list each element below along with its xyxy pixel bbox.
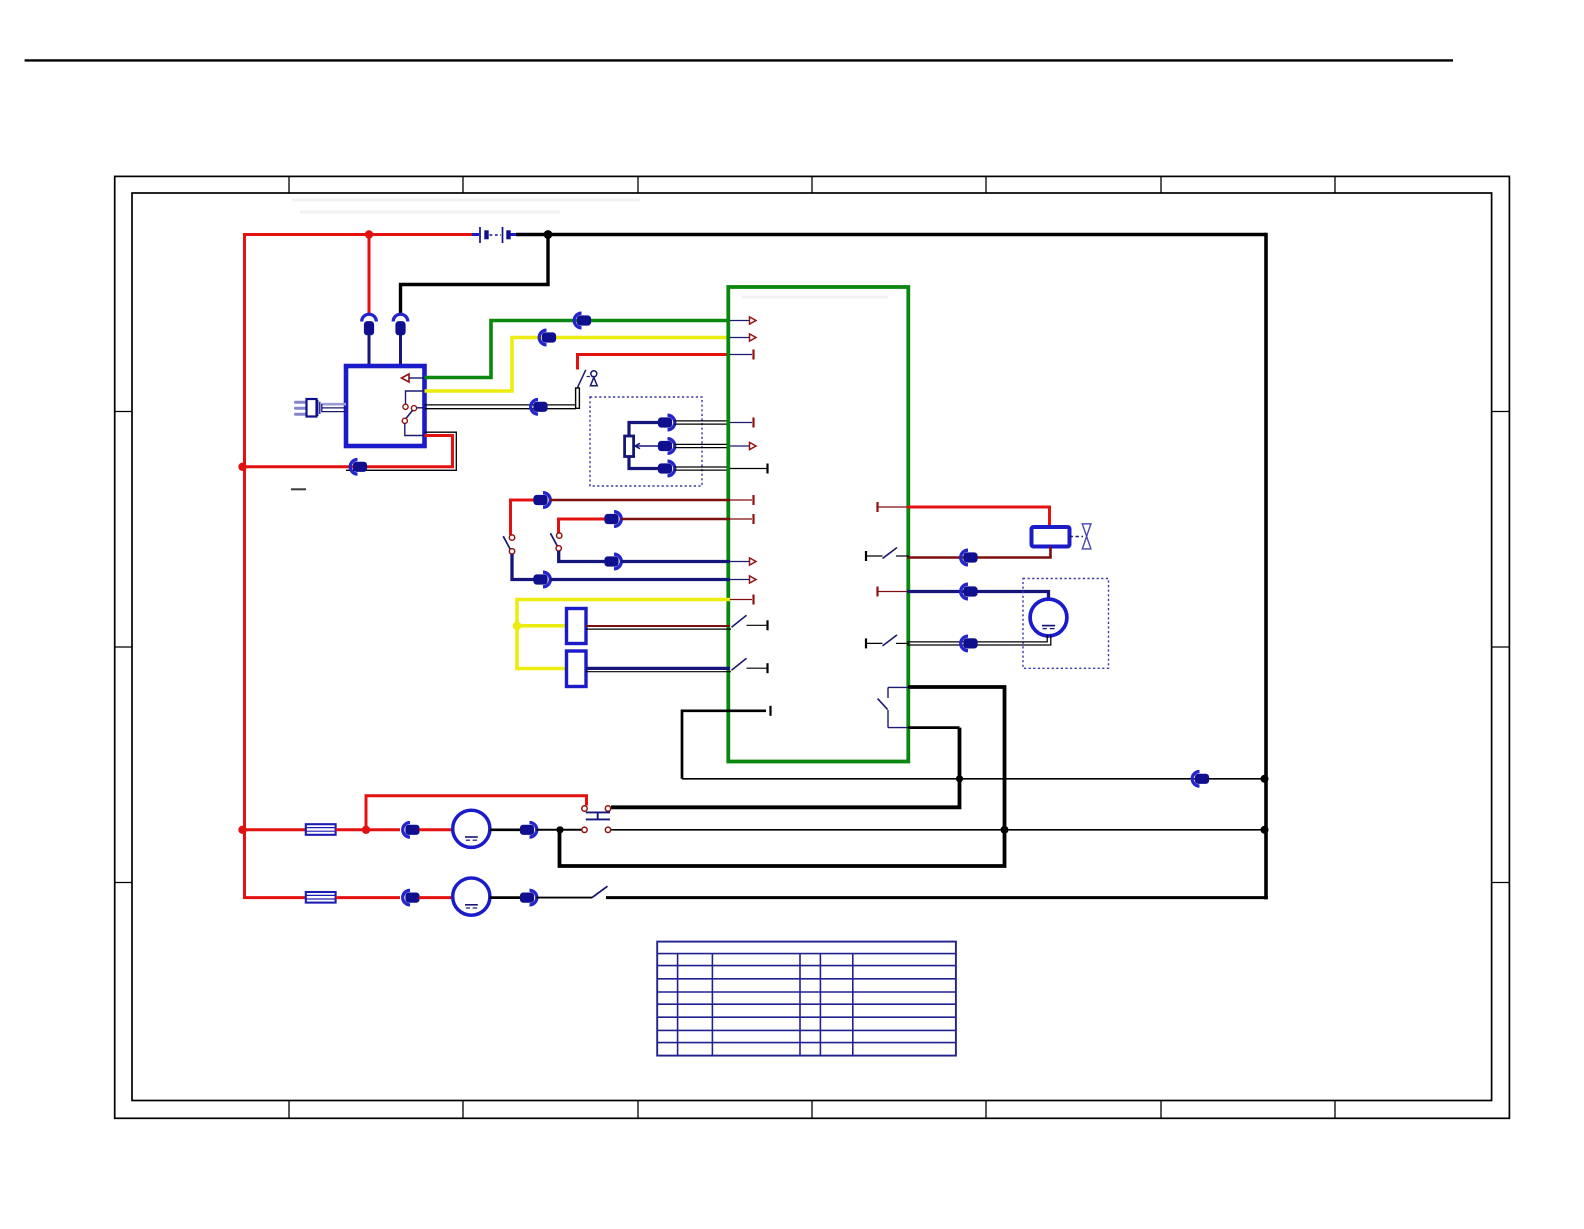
- faint watermark text row: [292, 199, 640, 202]
- lamp L2 mark: [465, 904, 478, 906]
- ECU pin stub rowD: [730, 579, 750, 581]
- ECU pin stub rowR3: [878, 591, 910, 593]
- connector C3 green (arc): [574, 313, 581, 328]
- drawing frame inner border: [132, 193, 1492, 1101]
- node junction bus830/T1 run: [1001, 826, 1009, 834]
- faint watermark inside ECU: [742, 296, 888, 299]
- ECU rowR2 switch lever: [883, 548, 898, 559]
- kill switch S1 operator body: [590, 377, 597, 385]
- valve V1 top: [1082, 524, 1091, 537]
- switch S3 contact bottom: [556, 546, 561, 551]
- connector C13 rowC (pin): [605, 557, 618, 566]
- wire red ECU row3 feed: [578, 353, 731, 356]
- connector C17 motor-return (pin): [964, 639, 977, 648]
- ECU pin rowR3 terminator: [876, 587, 878, 597]
- kill switch S1 lever: [578, 370, 586, 388]
- wire red branch to CDI unit: [368, 235, 371, 315]
- connector C7 TPS-wiper (arc): [668, 439, 675, 454]
- ECU rowG switch lever: [732, 658, 747, 670]
- frame zone tick marks: [288, 176, 290, 193]
- connector P1 red (pin): [364, 322, 373, 335]
- U1 internal contact a: [403, 404, 408, 409]
- node red junction brake branch: [362, 826, 370, 834]
- ECU pin rowE terminator: [752, 595, 754, 605]
- ECU pin stub row3: [730, 354, 752, 356]
- sensor TPS dashed outline: [590, 397, 702, 486]
- ECU rowR4 switch lever: [883, 635, 898, 646]
- wire white pair TPS wiper to ECU: [675, 443, 731, 445]
- connector C8 TPS-bot (pin): [658, 464, 671, 473]
- connector C12 rowD (arc): [543, 572, 550, 587]
- connector C20 lamp2 (arc): [403, 890, 410, 905]
- battery BT1 cell dashes: [490, 234, 502, 236]
- wire navy P1 to CDI: [368, 335, 371, 367]
- wire red sensor row B: [559, 519, 608, 533]
- plug J1 wires to U1: [323, 403, 347, 406]
- wire navy rowC to ECU: [621, 560, 730, 563]
- ECU pin rowF terminator: [766, 620, 768, 630]
- connector C14 bus779 (arc): [1192, 772, 1199, 787]
- wire navy S2 to rowD: [512, 554, 536, 580]
- drawing frame outer border: [115, 176, 1510, 1118]
- connector C9 ground (pin): [353, 462, 366, 471]
- ECU pin rowH terminator: [769, 706, 771, 716]
- wire red U1 to ground trunk: [243, 436, 453, 467]
- wire yellow rowE to ECU: [517, 600, 730, 602]
- connector C5 white (arc): [531, 400, 538, 415]
- wire black negative trunk right side: [1264, 233, 1268, 900]
- ECU pin row1 arrow: [750, 317, 757, 324]
- connector P2 black (pin): [396, 322, 405, 335]
- plug J1 body: [307, 399, 317, 417]
- wire black shadow pair: [346, 432, 456, 470]
- ECU pin stub rowR1: [878, 506, 910, 508]
- node junction bus830/neg trunk: [1261, 826, 1269, 834]
- ECU pin row3 terminator: [752, 350, 754, 360]
- wire navy ECU to motor: [907, 592, 1049, 601]
- valve V1 bottom: [1082, 536, 1091, 549]
- plug J1 prong 1: [296, 401, 307, 404]
- ECU pin row5 arrow: [750, 442, 757, 449]
- kill switch S1 actuator: [576, 388, 580, 408]
- connector C4 yellow (pin): [542, 333, 555, 342]
- kill switch S1 operator dash: [587, 376, 590, 378]
- battery BT1 negative lead: [511, 233, 518, 236]
- kill switch S1 red stub: [576, 353, 579, 370]
- connector C5 white (pin): [534, 402, 547, 411]
- wire yellow branch to R2: [517, 667, 566, 669]
- wire white pair TPS bottom to ECU: [675, 466, 731, 468]
- wire red brake switch feed: [366, 796, 587, 830]
- wire yellow branch to R1: [517, 624, 566, 628]
- connector C21 lamp2-out (arc): [530, 890, 537, 905]
- motor M1 dashed outline: [1023, 579, 1109, 669]
- connector C11 rowB (arc): [614, 512, 621, 527]
- ECU transistor sw T1 bottom stub: [887, 710, 889, 728]
- connector C10 rowA (arc): [543, 493, 550, 508]
- wire red ECU to relay: [907, 507, 1050, 528]
- connector C18 lamp1 (arc): [403, 823, 410, 838]
- connector C4 yellow (arc): [539, 330, 546, 345]
- ECU pin rowA terminator: [752, 495, 754, 505]
- plug J1 prong 3: [296, 413, 307, 416]
- wire maroon R1 to ECU: [586, 625, 730, 627]
- wire yellow U1 to ECU: [425, 338, 731, 392]
- connector C8 TPS-bot (arc): [668, 461, 675, 476]
- wire navy S3 to rowC: [559, 551, 607, 562]
- connector C21 lamp2-out (pin): [520, 893, 533, 902]
- wire maroon rowA to ECU: [550, 499, 730, 501]
- connector P1 red (arc): [362, 314, 377, 321]
- wire black lamp1 to junction: [537, 829, 583, 831]
- ECU pin stub row6: [730, 468, 767, 470]
- wire black ECU rowH: [682, 711, 766, 779]
- battery BT1 plate long +: [479, 227, 481, 243]
- motor M1 body: [1030, 599, 1067, 636]
- node junction bus779/neg trunk: [1261, 775, 1269, 783]
- connector C16 motor (pin): [964, 587, 977, 596]
- U1 internal contact c: [402, 418, 407, 423]
- switch S2 contact top: [509, 535, 514, 540]
- wire navy R2 to ECU: [586, 667, 730, 670]
- ECU transistor sw T1 top lead: [888, 686, 909, 688]
- wire yellow drop: [515, 598, 519, 669]
- ECU pin stub rowB: [730, 518, 752, 520]
- connector C14 bus779 (pin): [1195, 774, 1208, 783]
- connector C7 TPS-wiper (pin): [658, 441, 671, 450]
- wire black thin bus 779: [682, 778, 1265, 780]
- CDI unit U1 box: [346, 366, 425, 446]
- connector C15 relay (pin): [964, 553, 977, 562]
- wire navy P2 to CDI: [399, 335, 402, 367]
- plug J1 taper lines: [317, 400, 319, 416]
- ECU rowR2 pin lead: [896, 555, 909, 557]
- kill switch S1 operator head: [591, 371, 597, 377]
- connector C15 relay (arc): [961, 550, 968, 565]
- label minus dash: [291, 488, 306, 490]
- wire maroon rowB to ECU: [621, 518, 730, 520]
- ECU pin stub rowR4: [866, 642, 883, 644]
- ECU pin stub row5: [730, 445, 750, 447]
- ECU pin rowC arrow: [750, 558, 757, 565]
- connector C19 lamp1-out (pin): [520, 825, 533, 834]
- ECU pin stub row2: [730, 337, 750, 339]
- U1 arrow lead: [409, 377, 424, 379]
- U1 output arrow (red triangle): [402, 374, 410, 382]
- ECU pin stub row4: [730, 422, 752, 424]
- wire black lamp1 out: [490, 828, 522, 831]
- wire red row1 feed: [243, 828, 307, 831]
- ECU rowG pin line: [747, 667, 768, 669]
- starter button SB1 bridge: [586, 811, 610, 813]
- wire green U1 to ECU: [425, 321, 731, 378]
- wire navy rowD to ECU: [550, 578, 730, 581]
- lamp L1 mark: [465, 836, 478, 838]
- lamp L2 body: [453, 878, 490, 915]
- switch S2 contact bottom: [509, 549, 514, 554]
- ECU pin row4 terminator: [752, 418, 754, 428]
- starter button SB1 contact br: [605, 827, 610, 832]
- ECU transistor sw T1 bottom lead: [888, 727, 909, 729]
- U1 internal switch lead from yellow pin: [406, 391, 425, 404]
- wire black lamp2 out: [490, 896, 522, 899]
- connector C16 motor (arc): [961, 584, 968, 599]
- connector C6 TPS-top (pin): [658, 418, 671, 427]
- ECU rowF pin line: [747, 624, 768, 626]
- connector C20 lamp2 (pin): [406, 893, 419, 902]
- TPS top lead: [629, 423, 659, 437]
- ECU pin rowG terminator: [766, 663, 768, 673]
- switch S2 lever: [503, 536, 510, 549]
- starter button SB1 contact tl: [582, 806, 587, 811]
- node red junction row1: [238, 826, 246, 834]
- connector C9 ground (arc): [350, 460, 357, 475]
- title block table: [657, 942, 956, 1056]
- fuse F1 body: [306, 824, 336, 835]
- ECU rowR4 pin lead: [896, 642, 909, 644]
- TPS resistor body: [625, 436, 634, 457]
- node yellow junction: [513, 621, 522, 630]
- connector C12 rowD (pin): [534, 575, 547, 584]
- ECU pin rowR1 terminator: [876, 502, 878, 512]
- connector C18 lamp1 (pin): [406, 825, 419, 834]
- ECU pin stub rowR2: [866, 555, 883, 557]
- node red junction at ignition-coil drop: [365, 230, 373, 238]
- ECU pin rowD arrow: [750, 576, 757, 583]
- node junction bus779/switch drop: [956, 775, 963, 782]
- wire black motor return pair: [907, 635, 1047, 642]
- TPS wiper arrowhead: [635, 443, 640, 448]
- indicator R1 body: [567, 609, 587, 644]
- page top rule: [25, 59, 1453, 61]
- battery BT1 positive lead: [472, 233, 479, 236]
- ECU pin row2 arrow: [750, 334, 757, 341]
- wire white pair TPS top to ECU: [675, 420, 731, 422]
- battery BT1 plate short 2: [507, 231, 510, 239]
- fuse F2 body: [306, 892, 336, 903]
- battery BT1 plate short -: [485, 231, 488, 239]
- wire black negative return bottom: [606, 896, 1268, 899]
- ECU pin stub rowE: [730, 599, 752, 601]
- switch S4 lever: [592, 886, 608, 897]
- ECU transistor sw T1 lever: [878, 699, 888, 710]
- connector C10 rowA (pin): [534, 495, 547, 504]
- connector C19 lamp1-out (arc): [530, 823, 537, 838]
- connector C3 green (pin): [577, 316, 590, 325]
- wire maroon relay return: [907, 547, 1051, 558]
- wire black battery negative top run: [516, 233, 1266, 237]
- U1 internal contact b: [411, 406, 416, 411]
- motor M1 mark: [1042, 625, 1055, 627]
- switch S3 lever: [550, 533, 557, 546]
- connector C13 rowC (arc): [614, 554, 621, 569]
- ECU pin stub rowC: [730, 561, 750, 563]
- connector C17 motor-return (arc): [961, 636, 968, 651]
- U1 internal contact c lead: [405, 423, 425, 435]
- connector C6 TPS-top (arc): [668, 415, 675, 430]
- fuse F1 stripes: [306, 827, 336, 829]
- node black junction battery negative drop: [544, 230, 553, 239]
- starter button SB1 contact tr: [605, 806, 610, 811]
- wire red battery positive trunk (left): [243, 233, 246, 899]
- wire black lamp2 to switch: [537, 897, 593, 899]
- wire black drop to starter button: [611, 728, 960, 808]
- wire black R2 shadow: [586, 671, 731, 673]
- U1 internal switch lever: [406, 410, 413, 418]
- fuse F2 stripes: [306, 894, 336, 896]
- ECU pin row6 terminator: [766, 464, 768, 474]
- ECU rowF switch lever: [732, 615, 747, 627]
- starter button SB1 stem: [597, 812, 599, 819]
- starter button SB1 contact bl: [582, 827, 587, 832]
- connector P2 black (arc): [393, 314, 408, 321]
- ECU pin rowR4 terminator: [865, 638, 867, 648]
- lamp L1 body: [453, 810, 490, 847]
- plug J1 prong 2: [296, 407, 307, 410]
- wire black T1 top run: [560, 687, 1005, 866]
- node black junction lamp1: [556, 826, 563, 833]
- TPS bottom lead: [629, 457, 659, 469]
- wire white pair U1 to kill switch: [425, 404, 577, 406]
- ECU pin rowB terminator: [752, 514, 754, 524]
- TPS wiper lead: [636, 445, 659, 447]
- relay K1 valve link: [1070, 536, 1084, 538]
- wire black thin bus 830: [611, 829, 1265, 831]
- wire red row2 to connector: [336, 896, 400, 899]
- relay K1 box: [1032, 527, 1070, 547]
- wire red row2 feed: [245, 896, 307, 899]
- switch S3 contact top: [557, 533, 562, 538]
- wire red to lamp2: [419, 896, 453, 899]
- ECU U2 box: [728, 287, 908, 762]
- connector C11 rowB (pin): [605, 514, 618, 523]
- wire red row1 to connector: [336, 828, 400, 831]
- wire black branch to CDI unit: [401, 235, 549, 315]
- wire black T1 bottom to drop: [908, 726, 960, 729]
- battery BT1 plate long 2: [502, 227, 504, 243]
- U1 internal contact b lead: [417, 407, 425, 409]
- wire red sensor row A: [511, 500, 537, 535]
- node red junction ground trunk: [238, 463, 246, 471]
- wire red to lamp1: [419, 828, 453, 831]
- ECU pin rowR2 terminator: [865, 551, 867, 561]
- indicator R2 body: [567, 651, 587, 687]
- ECU transistor sw T1 top stub: [887, 687, 889, 698]
- wire red battery feed (top): [243, 233, 472, 236]
- ECU pin stub rowA: [730, 499, 752, 501]
- wire black R1 shadow: [586, 628, 731, 630]
- ECU pin stub row1: [730, 320, 750, 322]
